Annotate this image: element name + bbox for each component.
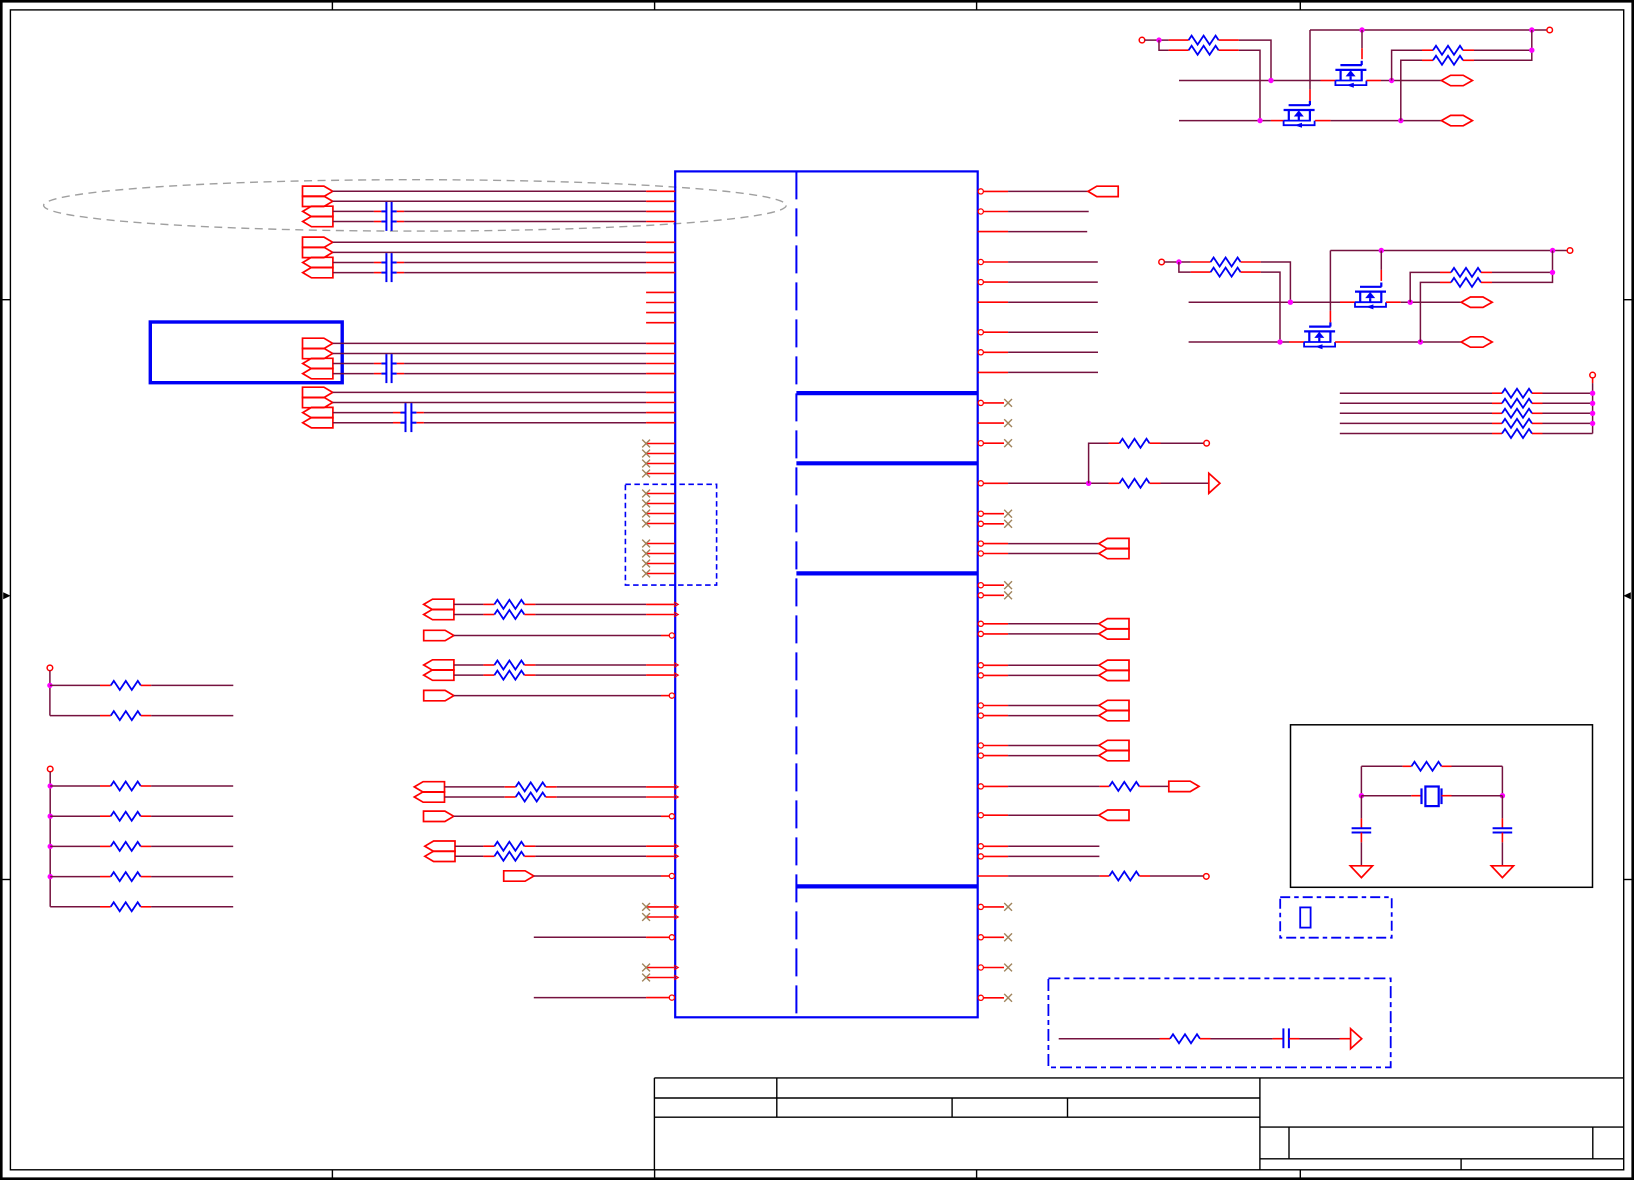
pin [374,210,382,212]
wire [50,906,100,908]
pin [393,422,401,424]
junction [1418,339,1423,344]
junction [1156,37,1161,42]
pin [374,262,382,264]
pin [416,422,424,424]
wire [534,875,661,877]
junction [1529,48,1534,53]
frame tick top [976,1,978,10]
pin [1492,412,1502,414]
wire [1008,623,1099,625]
port P2 (output arrow) [303,196,333,206]
wire [1380,251,1382,270]
highlight ellipse [44,180,787,231]
junction [1590,391,1595,396]
pin chevron [674,785,678,790]
no-connect X [1004,510,1012,518]
port P1 (output arrow) [303,186,333,196]
wire [333,342,646,344]
no-connect X [642,470,650,478]
wire [424,412,646,414]
pin [984,664,1009,666]
resistor R15 [111,902,141,911]
wire [1340,422,1492,424]
blue highlight rectangle [150,322,342,383]
resistor R26 [1451,268,1481,277]
no-connect X [1004,933,1012,941]
pin [646,262,675,264]
wire [1381,80,1441,82]
pin bubble [978,209,983,214]
port P7 (input arrow) [303,257,333,267]
pin [374,373,382,375]
pin [1492,422,1502,424]
wire [535,614,646,616]
pin [1309,89,1311,101]
wire [1189,341,1289,343]
pin [1532,412,1543,414]
wire [1150,875,1204,877]
pin [1150,482,1161,484]
title block cell v2 [1592,1127,1594,1159]
no-connect X [642,570,650,578]
wire [333,373,374,375]
title block divider v2 [951,1098,953,1117]
pin [984,482,1009,484]
port P16 (input arrow) [303,418,333,428]
pin [1200,1038,1211,1040]
resistor R18 [1109,782,1139,791]
pin [646,845,675,847]
pin [397,373,405,375]
resistor R24 [1211,258,1241,267]
resistor R10 [111,711,141,720]
port P14 (output arrow) [303,397,333,407]
port P26 (input arrow) [425,841,455,851]
pin bubble [978,330,983,335]
no-connect X [1004,581,1012,589]
resistor R8 [494,852,524,861]
wire [1161,482,1209,484]
no-connect X [1004,399,1012,407]
junction [1398,118,1403,123]
pin [984,331,1009,333]
pin [1492,433,1502,435]
terminal node [1567,248,1573,254]
IC U1 section separator bar [796,461,977,465]
no-connect X [1004,520,1012,528]
wire [1543,402,1593,404]
pin [1442,765,1452,767]
pin [1440,281,1451,283]
port P17 (input arrow) [424,599,454,609]
dashed group box (RC filter) [1048,978,1390,1067]
pin chevron [674,673,678,678]
pin [505,796,516,798]
pin chevron [674,965,678,970]
wire [1145,39,1169,41]
frame tick left [1,299,10,301]
wire [1150,785,1169,787]
capacitor C11 [1283,1028,1289,1048]
wire [454,674,484,676]
crystal Y1 [1422,787,1442,807]
pin [984,190,1009,192]
pin [646,402,675,404]
resistor R19 [1109,872,1139,881]
wire [1543,433,1593,435]
wire [404,373,646,375]
pin [661,875,669,877]
pin [1360,818,1362,828]
terminal node [1139,37,1145,43]
pin bubble [978,703,983,708]
wire [1008,785,1099,787]
wire [1410,272,1440,302]
no-connect X [1004,994,1012,1002]
pin [646,221,675,223]
wire [534,936,646,938]
pin [978,422,1004,424]
pin bubble [669,995,674,1000]
pin [141,715,151,717]
port P20 (input arrow) [424,660,454,670]
pin [1366,80,1381,82]
pin [374,363,382,365]
port P8 (input arrow) [303,267,333,277]
wire [1179,120,1271,122]
pin [984,281,1009,283]
wire [1340,412,1492,414]
wire [1008,301,1098,303]
resistor R12 [111,812,141,821]
pin [646,412,675,414]
pin [646,422,675,424]
pin [646,936,669,938]
pin [397,363,405,365]
wire [1360,766,1362,795]
no-connect X [642,490,650,498]
junction [1359,793,1364,798]
no-connect X [642,460,650,468]
pin [646,200,675,202]
no-connect X [1004,591,1012,599]
wire [1211,1038,1273,1040]
pin [646,342,675,344]
pin [141,684,151,686]
wire [1361,765,1402,767]
pin [1411,795,1421,797]
title block divider v1 [776,1078,778,1117]
pin [1191,261,1211,263]
pin [1463,49,1474,51]
wire [534,997,646,999]
port P37 (input arrow) [1099,710,1129,720]
pin [100,876,111,878]
pin [546,786,557,788]
title block row line 2 [654,1097,1260,1099]
pin [984,351,1009,353]
pin bubble [978,280,983,285]
pin bubble [669,693,674,698]
pin [646,603,675,605]
wire [445,786,505,788]
port P32 (input arrow) [1099,619,1129,629]
frame tick top [654,1,656,10]
pin [984,845,1009,847]
pin [646,391,675,393]
pin [1241,271,1261,273]
port P39 (input arrow) [1099,750,1129,760]
no-connect X [642,440,650,448]
wire [151,684,233,686]
no-connect X [642,560,650,568]
junction [1408,300,1413,305]
pin [483,614,494,616]
pin bubble [978,784,983,789]
wire [1008,674,1099,676]
pin chevron [674,602,678,607]
pin [397,210,405,212]
junction [1257,118,1262,123]
pin bubble [669,873,674,878]
pin bubble [978,511,983,516]
wire [454,603,484,605]
no-connect X [642,913,650,921]
port P6 (output arrow) [303,247,333,257]
wire [1361,30,1363,48]
title block divider v3 [1067,1098,1069,1117]
pin [984,633,1009,635]
no-connect X [642,520,650,528]
pin [646,241,675,243]
pin [1219,49,1239,51]
pin [393,412,401,414]
wire [333,241,646,243]
wire [1008,745,1099,747]
pin [984,785,1009,787]
wire [1474,30,1532,60]
port (output triangle) [1209,473,1220,493]
pin [141,876,151,878]
pin bubble [978,259,983,264]
pin bubble [978,935,983,940]
wire [404,262,646,264]
pin [646,553,675,555]
pin (unconnected) [646,312,675,314]
port P3 (input arrow) [303,206,333,216]
capacitor C1 (series pair) [381,202,396,231]
pin [397,262,405,264]
resistor R30 [1502,409,1532,418]
pin [1386,301,1401,303]
pin [416,412,424,414]
pin [646,503,675,505]
frame tick right [1624,879,1633,881]
wire [404,272,646,274]
junction [1550,248,1555,253]
pin [646,614,675,616]
junction [1529,27,1534,32]
frame tick top [1299,1,1301,10]
pin bubble [669,935,674,940]
wire [404,210,646,212]
pin bubble [978,673,983,678]
wire [333,200,646,202]
no-connect X [1004,419,1012,427]
wire [1008,482,1108,484]
pin [100,815,111,817]
pin [1440,271,1451,273]
title block sheet divider [1460,1159,1462,1170]
pin [984,553,1009,555]
resistor R27 [1451,278,1481,287]
pin [646,473,675,475]
port P34 (input arrow) [1099,660,1129,670]
wire [333,272,374,274]
pin bubble [978,844,983,849]
wire [454,695,661,697]
pin [1271,120,1284,122]
wire [1492,271,1553,273]
pin [1099,785,1109,787]
pin [483,855,494,857]
pin [1360,833,1362,843]
resistor R28 [1502,389,1532,398]
pin [646,916,675,918]
resistor R21 [1189,46,1219,55]
ground [1350,866,1372,878]
wire [1008,371,1098,373]
port P11 (input arrow) [303,358,333,368]
pin [1532,433,1543,435]
port P15 (input arrow) [303,407,333,417]
resistor R9 [111,681,141,690]
title block right row line [1260,1126,1624,1128]
frame tick bottom [654,1170,656,1179]
no-connect X [642,510,650,518]
capacitor C4 (series pair) [401,403,417,432]
pin [661,635,669,637]
pin [1340,301,1355,303]
no-connect X [642,974,650,982]
title block left edge [653,1078,655,1170]
title block right row line 2 [1260,1158,1624,1160]
pin [1099,875,1109,877]
wire [1008,190,1088,192]
pin [1361,48,1363,59]
port P27 (input arrow) [425,851,455,861]
pin [1191,271,1211,273]
wire [1008,553,1099,555]
wire [1179,262,1191,272]
pin bubble [978,593,983,598]
port P18 (input arrow) [424,609,454,619]
pin [1403,765,1412,767]
pin [646,363,675,365]
resistor R11 [111,782,141,791]
pin [374,272,382,274]
wire [1089,443,1109,483]
pin [646,573,675,575]
wire [50,815,100,817]
pin [646,272,675,274]
pin [646,563,675,565]
resistor R1 [494,600,524,609]
frame tick bottom [976,1170,978,1179]
resistor R32 [1502,429,1532,438]
transistor Q2 [1284,101,1315,128]
pin [646,543,675,545]
wire [49,671,51,716]
wire [333,210,374,212]
pin [978,231,1008,233]
junction [48,874,53,879]
junction [1590,401,1595,406]
pin [984,594,1004,596]
wire [1360,796,1362,819]
port P30 (input arrow) [1099,538,1129,548]
wire [50,715,100,717]
frame tick bottom [1299,1170,1301,1179]
junction [48,844,53,849]
pin bubble [978,551,983,556]
pin [1481,281,1492,283]
resistor R7 [494,842,524,851]
pin [984,623,1009,625]
wire [1189,301,1340,303]
pin [524,855,535,857]
pin bubble [978,541,983,546]
group box (crystal circuit) [1291,725,1593,888]
pin [1532,392,1543,394]
component outline (small rect) [1300,907,1310,927]
pin [1169,49,1189,51]
port (output triangle) [1351,1029,1362,1049]
pin [397,272,405,274]
wire [1008,664,1099,666]
pin chevron [674,663,678,668]
wire [50,684,100,686]
pin [984,705,1009,707]
wire [1008,755,1099,757]
pin [1139,785,1150,787]
wire [1501,842,1503,866]
pin [397,221,405,223]
pin [100,715,111,717]
wire [535,674,646,676]
wire [1309,30,1311,89]
pin [978,301,1008,303]
wire [535,603,646,605]
wire [333,262,374,264]
wire [1474,49,1532,51]
pin [1492,402,1502,404]
pin [984,745,1009,747]
title block cell v1 [1288,1127,1290,1159]
no-connect X [1004,439,1012,447]
pin [483,674,494,676]
pin [984,715,1009,717]
wire [151,906,233,908]
wire [1159,40,1169,50]
title block main divider [1259,1078,1261,1170]
pin [646,906,675,908]
resistor R13 [111,842,141,851]
dashed group box (left) [625,484,716,585]
no-connect X [642,450,650,458]
net connector (hex) [1461,337,1492,347]
